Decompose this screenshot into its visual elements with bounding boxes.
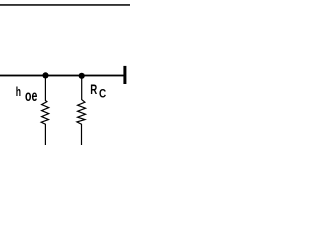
svg-text:C: C bbox=[99, 88, 106, 101]
svg-text:oe: oe bbox=[25, 87, 38, 105]
node junction dot right bbox=[79, 73, 85, 79]
resistor h_oe (left, with wires) bbox=[41, 76, 49, 146]
resistor R_C (right, with wires) bbox=[77, 76, 86, 145]
wire top rail bbox=[0, 4, 130, 6]
svg-text:R: R bbox=[90, 81, 97, 97]
wire middle rail (collector rail) bbox=[0, 75, 124, 77]
terminal bar (output terminal) bbox=[123, 66, 126, 84]
node junction dot left bbox=[42, 72, 48, 78]
svg-text:h: h bbox=[16, 85, 21, 99]
